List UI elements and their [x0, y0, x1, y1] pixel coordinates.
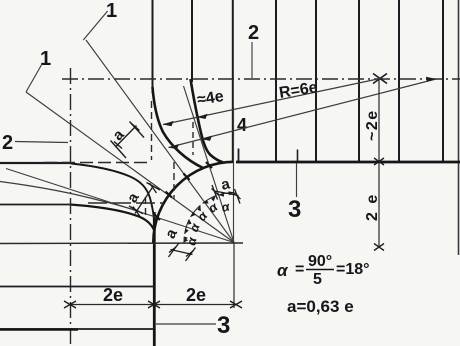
dim cross at y=247: [374, 244, 384, 251]
leader 3 bottom: [156, 323, 216, 325]
svg-text:90°: 90°: [308, 253, 332, 270]
kerb curve K-left: [153, 87, 204, 168]
ray A (36deg): [86, 40, 234, 243]
leader 2 top: [251, 42, 253, 78]
dim cross at x=70: [64, 301, 76, 308]
hatch line top x=316: [315, 0, 317, 161]
center cross X at (380,78.5): [373, 74, 387, 84]
dim extension x=234.5 below center: [233, 243, 235, 309]
left hatch y=204.5: [0, 204, 70, 206]
svg-text:2 e: 2 e: [364, 193, 381, 221]
svg-text:2: 2: [248, 22, 259, 44]
radius line U (about 4e) with arrow to K2: [163, 79, 380, 125]
hatch line top x=152: [152, 0, 154, 93]
dim a fan bottom: [169, 244, 196, 262]
left hatch y=329 thick part: [0, 328, 78, 330]
svg-text:1: 1: [106, 0, 117, 22]
dim a fan left: [129, 183, 160, 217]
leader 2 left: [15, 142, 68, 143]
road edge right (kerb line 3): [236, 161, 460, 164]
kerb curve L2 (left, from y=204.5 edge): [70, 205, 155, 232]
dim a upper-left: [111, 122, 145, 159]
alpha angle arcs with arrows: [184, 193, 234, 243]
ray 0deg vertical inside arc: [233, 107, 235, 243]
svg-text:~2e: ~2e: [364, 109, 381, 141]
svg-text:α: α: [277, 261, 289, 280]
kerb line bottom road (line 3): [153, 212, 156, 346]
hatch line top x=443: [442, 0, 444, 161]
kerb curve L1 (left, from y=163 edge): [71, 164, 155, 229]
svg-text:a=0,63 e: a=0,63 e: [287, 297, 354, 316]
svg-text:2: 2: [2, 132, 13, 154]
svg-text:2e: 2e: [186, 285, 206, 305]
dashed vertical x=193: [192, 122, 194, 155]
hatch line top x=192: [191, 0, 193, 82]
svg-text:4: 4: [237, 115, 247, 135]
hatch line top right edge: [458, 0, 460, 255]
hatch line top x=276: [275, 0, 277, 161]
left hatch y=329: [0, 328, 154, 330]
left road edge y=163 solid: [0, 162, 71, 164]
dim cross at y=161.5: [374, 158, 384, 165]
hatch line top x=232: [232, 0, 234, 161]
right dimension vertical: [378, 79, 380, 247]
alpha arc arrowheads: [184, 191, 234, 242]
ray C (72deg): [6, 169, 234, 243]
left hatch y=286.5: [0, 286, 154, 288]
radius line Q (R=6e) with arrows both ends: [169, 79, 437, 148]
centerline horizontal axis 2 dash-dot: [62, 78, 460, 80]
dim cross at x=236: [230, 301, 242, 308]
bottom dimension line: [70, 304, 236, 306]
leader 1 top: [83, 11, 107, 40]
leader 3 right: [296, 163, 298, 197]
dim cross at x=154: [148, 301, 160, 308]
svg-text:2e: 2e: [103, 285, 123, 305]
centerline vertical (axis 2) dash-dot: [70, 68, 72, 346]
hatch line top x=399: [398, 0, 400, 161]
dashed vertical x=174: [173, 162, 175, 199]
tangent tick x=238.5: [238, 149, 240, 163]
hatch line top x=359: [358, 0, 360, 161]
svg-text:3: 3: [217, 312, 230, 339]
ray 18deg: [184, 86, 235, 243]
svg-text:=18°: =18°: [336, 261, 370, 278]
ray 90deg horizontal baseline: [0, 242, 243, 245]
dashed vertical x=145.5: [145, 197, 147, 218]
svg-text:=: =: [295, 261, 304, 278]
chord tick marks on arc: [155, 162, 213, 220]
kerb curve K2: [191, 79, 224, 162]
kerb corner arc: [153, 162, 234, 243]
tick x=297.5 above edge: [297, 150, 299, 163]
svg-text:5: 5: [313, 271, 322, 288]
dashed horizontal y=203: [88, 202, 163, 204]
dashed corner: vertical x=153: [151, 101, 153, 160]
svg-text:1: 1: [40, 48, 51, 70]
dashed corner: horizontal y=162.5: [44, 162, 152, 164]
leader 1 left: [26, 64, 42, 92]
dim a fan top: [212, 185, 241, 204]
svg-text:3: 3: [288, 196, 301, 223]
left road edge thin curve: [0, 182, 140, 213]
ray B (54deg): [26, 92, 234, 243]
